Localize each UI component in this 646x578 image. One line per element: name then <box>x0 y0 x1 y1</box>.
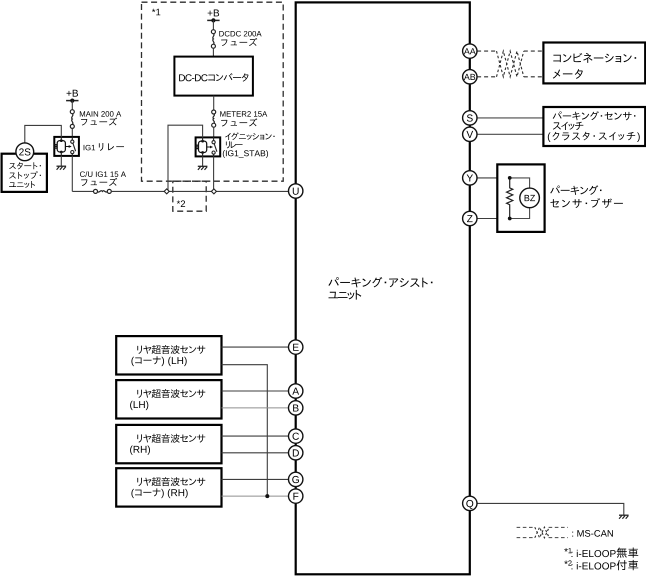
fuse MAIN 200A <box>70 110 74 114</box>
wire buzzer internal top <box>510 178 530 188</box>
wire buzzer internal bottom <box>510 208 530 219</box>
parking assist unit box <box>296 2 470 574</box>
legend twisted pair dashed line top-left <box>517 526 536 528</box>
label C/U IG1 15 A <box>80 171 85 177</box>
ground (IG1 relay) <box>57 165 67 167</box>
wire sensor RH to D <box>222 452 289 454</box>
connector C <box>289 429 303 443</box>
label fuse (METER2) <box>221 120 227 127</box>
label buzzer line1 <box>550 186 560 194</box>
connector F <box>289 489 303 503</box>
label IG1 relay <box>83 145 86 150</box>
combination meter box <box>543 43 645 84</box>
wire C/U fuse to connector U <box>111 190 288 192</box>
connector U <box>289 184 303 198</box>
label fuse (C/U) <box>81 179 87 186</box>
ground (Q) <box>619 514 629 516</box>
label MS-CAN <box>571 532 574 537</box>
connector Z <box>463 211 477 225</box>
buzzer BZ <box>520 188 540 208</box>
resistor (buzzer) <box>507 178 513 218</box>
wire METER2 fuse to ignition relay <box>213 127 215 137</box>
label METER2 15A <box>220 111 225 116</box>
connector AB <box>463 70 477 84</box>
wire S to switch box <box>477 117 543 119</box>
junction dot buzzer bottom <box>508 217 512 221</box>
connector 2S <box>16 143 34 161</box>
wire +B to DCDC fuse <box>212 20 214 29</box>
label *1 <box>152 9 155 12</box>
ground (ignition relay) <box>198 165 208 167</box>
connector AA <box>463 44 477 58</box>
label combination meter line2 <box>553 69 560 78</box>
legend twisted pair dashed line bottom-left <box>517 537 536 539</box>
wire sensor corner LH second line to F junction <box>222 365 268 496</box>
connector Y <box>463 171 477 185</box>
wire ignition relay coil to junction <box>168 125 203 191</box>
fuse DCDC 200A <box>211 30 215 34</box>
dashed option box *1 (i-ELOOP equipped branch) <box>142 2 284 181</box>
junction dot on F wire <box>265 494 269 498</box>
fuse METER2 15A <box>212 110 216 114</box>
label sensor corner LH line2 <box>131 357 134 366</box>
connector B <box>289 401 303 415</box>
label start-stop line2 <box>9 173 16 179</box>
twisted pair symbol (CAN to meter) <box>497 51 524 77</box>
connector D <box>289 446 303 460</box>
connector G <box>289 472 303 486</box>
label parking sensor switch line2 <box>553 122 561 129</box>
label sensor corner RH line1 <box>137 478 142 486</box>
wire V to switch box <box>477 133 543 135</box>
label sensor LH line1 <box>137 390 142 398</box>
wire IG1 relay switch down <box>71 156 73 192</box>
label fuse (DCDC) <box>221 40 227 47</box>
wire DC-DC to METER2 fuse <box>213 96 215 110</box>
junction (ignition relay coil branch) <box>164 189 169 194</box>
legend twisted pair dashed line top-right <box>549 526 568 528</box>
dashed CAN wire to meter box (bottom) <box>524 76 544 78</box>
dashed CAN wire AA (top) <box>477 50 496 52</box>
label sensor corner LH line1 <box>137 346 142 354</box>
junction dot buzzer top <box>508 176 512 180</box>
label combination meter line1 <box>553 55 561 62</box>
dashed option box *2 <box>173 181 206 211</box>
label fuse (MAIN) <box>81 119 87 126</box>
wire sensor LH to A <box>222 390 289 392</box>
legend twisted pair dashed line bottom-right <box>549 537 568 539</box>
wire Y to buzzer <box>477 177 510 179</box>
DC-DC converter box <box>174 57 253 96</box>
rear ultrasonic sensor box (corner LH) <box>116 336 221 374</box>
wire MAIN fuse to IG1 relay <box>71 128 73 137</box>
label parking assist unit line1 <box>328 277 338 286</box>
wire Z to buzzer <box>477 218 510 220</box>
ignition relay (IG1_STAB) <box>196 137 221 156</box>
label DC-DC converter <box>179 74 185 81</box>
label ignition relay line2 <box>226 141 230 148</box>
connector S <box>463 111 477 125</box>
wire ignition relay coil to ground <box>202 156 204 166</box>
wire IG1 relay coil to ground <box>60 156 62 166</box>
dashed CAN wire to meter box (top) <box>524 50 544 52</box>
wire IG1 relay coil to start-stop unit <box>25 125 62 143</box>
dashed CAN wire AB (bottom) <box>477 76 496 78</box>
wire +B to MAIN fuse <box>71 101 73 110</box>
label parking assist unit line2 <box>329 292 339 298</box>
wire Q to ground <box>477 503 624 515</box>
label sensor RH line2 <box>130 446 133 455</box>
wire IG1 switch to C/U fuse <box>72 190 93 192</box>
parking sensor switch box <box>543 107 645 146</box>
label parking sensor switch line3 <box>548 132 551 142</box>
label ignition relay line3 <box>223 150 225 158</box>
parking sensor buzzer box <box>497 164 544 232</box>
label parking sensor switch line1 <box>553 111 562 119</box>
label MAIN 200 A <box>80 111 85 116</box>
label footnote *2 <box>564 561 568 565</box>
label ignition relay line1 <box>225 133 231 140</box>
junction (ignition relay switch branch) <box>211 189 216 194</box>
connector Q <box>463 496 477 510</box>
label start-stop line1 <box>9 163 16 169</box>
label sensor LH line2 <box>130 401 133 410</box>
wire ignition relay switch to junction <box>213 156 215 191</box>
rear ultrasonic sensor box (corner RH) <box>116 468 221 506</box>
power symbol +B (main) <box>67 91 72 96</box>
IG1 relay <box>54 137 79 156</box>
label *2 <box>177 200 180 203</box>
label start-stop line3 <box>9 182 16 187</box>
wire sensor corner RH to F <box>222 495 289 497</box>
label footnote *1 <box>564 548 568 552</box>
start-stop unit box <box>2 154 47 192</box>
label sensor RH line1 <box>137 434 142 442</box>
rear ultrasonic sensor box (RH) <box>116 425 221 463</box>
fuse C/U IG1 15A <box>94 189 98 193</box>
label sensor corner RH line2 <box>131 489 134 498</box>
connector E <box>289 340 303 354</box>
label buzzer line2 <box>550 199 559 207</box>
legend twisted pair symbol <box>535 527 549 538</box>
power symbol +B (DC-DC branch) <box>208 11 213 16</box>
wire sensor corner LH to E <box>222 346 289 348</box>
wire sensor RH to C <box>222 435 289 437</box>
wire sensor corner RH to G <box>222 478 289 480</box>
wire fuse to DC-DC converter <box>212 48 214 56</box>
label DCDC 200A <box>219 31 224 36</box>
wire sensor LH to B <box>222 407 289 409</box>
connector A <box>289 384 303 398</box>
rear ultrasonic sensor box (LH) <box>116 380 221 418</box>
connector V <box>463 127 477 141</box>
